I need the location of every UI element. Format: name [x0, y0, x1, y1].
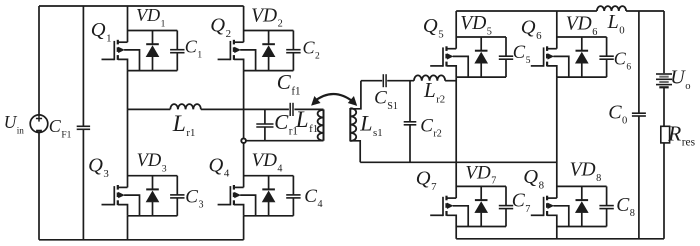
svg-text:Q8: Q8	[523, 166, 544, 191]
wire Q3 cell bottom line	[128, 215, 178, 217]
wire leg B upper (top rail to Q2 drain)	[243, 6, 245, 42]
wire bridge midpoint to Lr1	[128, 108, 171, 110]
wire secondary bottom (to right leg B)	[360, 161, 557, 163]
capacitor C3	[170, 176, 203, 216]
wire Ls1 top lead	[350, 81, 361, 109]
wire Q4 cell bottom line	[244, 215, 294, 217]
wire leg A middle (Q1 source to midpoint)	[127, 71, 129, 110]
capacitor C6	[599, 37, 631, 77]
diode VD1	[136, 5, 166, 71]
wire top rail after L0	[626, 10, 664, 12]
node junction circle on leg B	[241, 138, 246, 143]
svg-text:C5: C5	[513, 43, 531, 66]
diode VD8	[570, 160, 602, 227]
wire leg A upper (top rail to Q1 drain)	[127, 6, 129, 42]
svg-text:VD2: VD2	[251, 5, 283, 29]
svg-text:Cr2: Cr2	[420, 115, 442, 139]
wire Q6 cell bottom line	[557, 76, 607, 78]
capacitor C1	[170, 31, 202, 71]
svg-text:Uo: Uo	[670, 67, 690, 92]
wire right leg A middle	[455, 77, 457, 198]
svg-text:CF1: CF1	[49, 116, 72, 140]
capacitor C5	[499, 37, 531, 77]
wire resistor to bottom rail	[663, 143, 665, 239]
wire Q1 cell bottom line	[128, 70, 178, 72]
diode VD6	[566, 14, 598, 77]
diode VD2	[251, 5, 283, 70]
voltage source Uin	[4, 6, 48, 240]
svg-text:VD4: VD4	[252, 150, 283, 174]
wire bottom rail of right bridge	[456, 238, 664, 240]
diode VD4	[252, 150, 283, 216]
capacitor C8	[599, 186, 634, 226]
svg-text:VD8: VD8	[570, 160, 602, 184]
capacitor C7	[499, 186, 531, 226]
wire leg A lower (midpoint to Q3 drain)	[127, 109, 129, 187]
inductor Lr1	[170, 104, 201, 139]
node Q4 cell top line	[244, 175, 294, 177]
svg-text:Q5: Q5	[423, 15, 444, 40]
diode VD7	[465, 162, 496, 226]
capacitor Cf1	[277, 70, 301, 116]
svg-text:Lf1: Lf1	[295, 107, 318, 135]
wire Lr1 to Cf1 (crosses leg B)	[201, 108, 289, 110]
svg-text:VD3: VD3	[137, 151, 167, 174]
svg-text:C4: C4	[304, 186, 322, 210]
wire top rail of right bridge	[456, 10, 597, 12]
svg-text:CS1: CS1	[374, 88, 398, 112]
node Q3 cell top line	[128, 175, 178, 177]
wire Q5 cell bottom line	[456, 76, 506, 78]
svg-text:Q1: Q1	[91, 19, 112, 44]
wire load rail upper	[663, 11, 665, 73]
transistor Q7	[416, 168, 468, 227]
transistor Q3	[88, 155, 139, 216]
svg-text:Cr1: Cr1	[274, 110, 298, 137]
wire leg B middle (Q2 source to Q4 drain)	[243, 71, 245, 188]
svg-text:VD6: VD6	[566, 14, 598, 38]
svg-text:VD5: VD5	[460, 13, 492, 37]
node Q1 cell top line	[128, 30, 178, 32]
wire right leg B to bottom rail	[556, 227, 558, 239]
svg-text:C7: C7	[512, 191, 531, 215]
wire Ls1 bottom lead	[350, 141, 360, 163]
svg-text:Q2: Q2	[210, 15, 231, 40]
wire right leg B middle	[556, 77, 558, 198]
capacitor C4	[286, 176, 322, 216]
inductor L0	[597, 6, 626, 36]
wire right leg B upper	[556, 11, 558, 49]
transformer coupling arrow	[312, 94, 357, 105]
node Q6 cell top line	[557, 36, 607, 38]
wire Ls1 to CS1	[361, 80, 382, 82]
wire Lr2 to right bridge leg A	[445, 80, 456, 82]
svg-text:Uin: Uin	[4, 112, 25, 135]
wire CS1 to Cr2 node	[387, 80, 414, 82]
wire tank bottom	[246, 140, 323, 142]
svg-text:Q7: Q7	[416, 168, 437, 193]
node Q8 cell top line	[557, 185, 607, 187]
transistor Q1	[91, 19, 140, 71]
svg-text:C3: C3	[185, 186, 203, 210]
capacitor C2	[286, 31, 320, 71]
transistor Q4	[209, 154, 256, 216]
svg-text:Q6: Q6	[521, 17, 542, 42]
node Q2 cell top line	[244, 30, 294, 32]
transformer secondary Ls1	[350, 108, 382, 141]
diode VD5	[460, 13, 492, 77]
capacitor Cr1	[256, 109, 298, 140]
capacitor Cr2	[404, 81, 442, 163]
transistor Q6	[521, 17, 569, 78]
node Q5 cell top line	[456, 36, 506, 38]
inductor Lr2	[414, 75, 445, 105]
wire battery to resistor	[663, 87, 665, 126]
wire Q2 cell bottom line	[244, 70, 294, 72]
wire top rail of left bridge	[39, 5, 244, 7]
diode VD3	[137, 151, 167, 216]
svg-text:Q4: Q4	[209, 154, 230, 179]
transistor Q5	[423, 15, 468, 77]
svg-text:C6: C6	[614, 48, 632, 72]
svg-text:Lr1: Lr1	[172, 111, 196, 139]
svg-text:VD7: VD7	[465, 162, 496, 186]
capacitor C0	[608, 11, 646, 239]
transistor Q2	[210, 15, 255, 71]
wire bottom rail of left bridge	[39, 239, 244, 241]
wire Cf1 to Lf1	[294, 108, 323, 110]
capacitor CF1	[49, 6, 90, 240]
svg-text:Rres: Rres	[667, 121, 695, 148]
svg-text:C8: C8	[616, 195, 635, 219]
svg-text:C1: C1	[185, 36, 203, 60]
transformer primary Lf1	[295, 107, 324, 141]
svg-text:Q3: Q3	[88, 155, 109, 180]
svg-text:Ls1: Ls1	[359, 111, 382, 139]
transistor Q8	[523, 166, 569, 227]
svg-text:L0: L0	[607, 11, 625, 36]
battery Uo	[656, 67, 691, 92]
wire right leg A upper	[455, 11, 457, 49]
svg-text:C2: C2	[303, 37, 321, 61]
capacitor CS1	[374, 74, 398, 112]
wire leg B to bottom rail	[243, 216, 245, 240]
wire Q7 cell bottom line	[456, 226, 506, 228]
svg-text:Cf1: Cf1	[277, 70, 301, 97]
svg-text:Lr2: Lr2	[423, 78, 445, 105]
wire Q8 cell bottom line	[557, 226, 607, 228]
wire right leg A to bottom rail	[455, 227, 457, 239]
node Q7 cell top line	[456, 185, 506, 187]
svg-text:C0: C0	[608, 101, 627, 126]
svg-text:VD1: VD1	[136, 5, 166, 29]
wire leg A to bottom rail	[127, 216, 129, 240]
resistor Rres	[661, 121, 696, 148]
